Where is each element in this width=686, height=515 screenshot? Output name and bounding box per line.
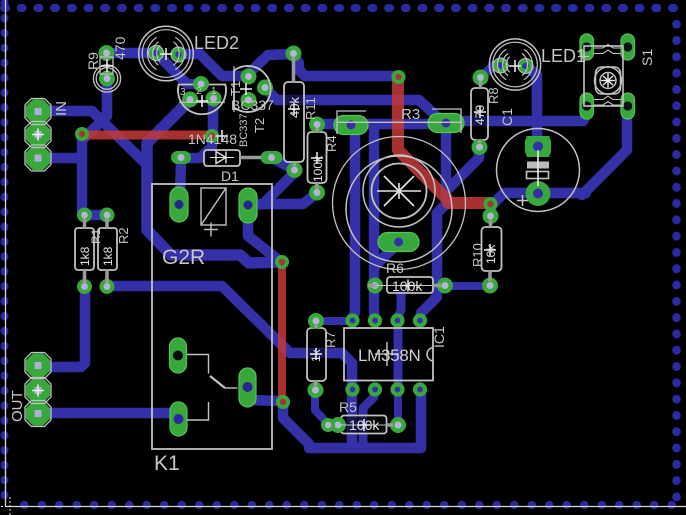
transistor T2 body [234,66,271,112]
resistor lead stubs [85,57,491,425]
svg-text:T2: T2 [252,118,267,133]
resistor R4 body [308,132,327,183]
relay K1 contact pad NO [170,338,187,373]
svg-text:100k: 100k [349,417,380,433]
svg-text:IN: IN [53,101,70,116]
wire T2 top pad to R11 top [246,54,292,76]
dashed frame top [4,4,686,12]
connector OUT pad 2 [26,378,50,402]
resistor R8 pads [472,70,489,156]
wire relay contact mid pad to via V5 [247,394,280,401]
via V2b [205,129,219,143]
svg-text:G2R: G2R [162,246,205,269]
wire pot wiper diag to riser [375,244,397,266]
wire D1 anode to relay coil pad 1 [180,158,181,203]
potentiometer pad right [428,114,464,133]
relay K1 coil pad 2 [239,188,257,223]
wire R4 top through pot pads [317,119,448,130]
resistor R11 body [284,82,304,162]
svg-text:D1: D1 [221,168,239,184]
resistor R2 body [98,228,117,270]
relay K1 contact pad NC [239,368,256,407]
svg-text:R5: R5 [339,399,357,415]
wire T2 right pad to pot right pad [265,88,444,123]
svg-text:LED2: LED2 [194,33,239,53]
svg-text:R2: R2 [116,227,131,244]
svg-text:R9: R9 [85,52,101,70]
svg-text:100k: 100k [311,155,325,182]
svg-text:470: 470 [112,36,128,60]
wire LED1 anode to C1 plus [526,66,537,146]
svg-text:1: 1 [211,86,217,97]
transistor T1 body [178,85,226,115]
via V6 [321,418,335,432]
diode D1 lead [240,156,261,160]
svg-text:10k: 10k [484,244,498,264]
via V7 [484,197,498,211]
transistor T2 pads [241,69,274,109]
svg-text:S1: S1 [639,49,655,66]
resistor R11 pads [286,46,303,179]
op-amp IC1 origin cross [375,342,399,366]
resistor R5 pads [330,417,406,433]
wire via V2b to D1 anode [184,137,212,158]
wire IN pin3 branch [38,153,80,164]
transistor T1 silk [178,85,226,115]
connector OUT pad 1 [26,353,50,377]
wire pot left pad down to IC pin1 [353,128,355,317]
wire R2 bottom to IC pin6 [107,286,352,446]
connector IN pad 2 [26,122,50,146]
relay K1 contact pad COM [170,402,187,436]
wire OUT pin3 to relay contact pad [40,408,176,419]
wire S1 pad to C1 minus bus [582,107,627,195]
svg-text:R4: R4 [324,135,339,152]
svg-text:OUT: OUT [9,390,26,422]
resistor R4 pads [309,117,325,201]
svg-text:R8: R8 [486,87,501,104]
wire IC pin3 to IC pin7 internal [394,321,403,389]
svg-text:BC337: BC337 [231,97,274,113]
svg-text:R1: R1 [89,228,103,244]
svg-text:R11: R11 [303,97,318,120]
capacitor C1 lead [537,150,539,186]
connector IN pad 1 [26,99,50,123]
resistor R8 body [471,88,488,140]
svg-text:100k: 100k [392,278,423,294]
board outline white line bottom [6,506,686,508]
capacitor C1 pad plus [525,136,551,157]
svg-text:470: 470 [473,105,487,125]
capacitor C1 pad minus [526,181,551,206]
connector IN silk octagons [25,99,51,172]
relay K1 coil pad 1 [170,187,188,222]
wire IC pin7 to R5 right [394,391,402,424]
dashed frame right [672,24,681,504]
LED LED1 silk [489,39,540,90]
resistor R6 pads [367,278,453,294]
diode D1 body [204,150,240,166]
wire top: via V2 to via V7 [398,78,488,203]
capacitor C1 plus mark [517,195,528,206]
wire T1 collector to via V2b [208,98,219,132]
connector OUT silk octagons [25,353,51,427]
origin marker cross [1,497,20,515]
wire LED2 anode to T2 top pad [178,54,246,76]
potentiometer body circles [333,137,466,270]
wire R8 bottom branch [449,147,479,188]
relay K1 contact symbol [187,355,238,421]
resistor R6 body [387,277,433,293]
wire R9.1 to LED2 anode [106,48,153,59]
wire via V5 to IC pin8 [283,392,421,448]
wire LED2 cathode to T1 base [156,53,199,84]
svg-text:T1: T1 [228,81,243,96]
wire IN pin1 branch [38,111,146,164]
wire R6 hidden to IC pin3 [398,293,401,317]
potentiometer pad left [334,116,368,135]
capacitor C1 circle [497,129,580,212]
svg-text:2: 2 [196,86,202,97]
resistor R9 silk [93,57,120,92]
wire R11 bottom to relay coil pad 2 [250,170,294,205]
potentiometer pad brackets [337,109,462,134]
switch S1 actuator lines [594,45,621,106]
svg-text:1N4148: 1N4148 [188,131,237,147]
potentiometer pad wiper [378,233,419,252]
wire IC pin6 to bottom bus [363,391,374,446]
potentiometer knob [363,155,435,227]
svg-text:R3: R3 [401,106,420,123]
svg-text:LM358N: LM358N [358,346,420,365]
diode D1 pads [171,151,283,164]
svg-text:BC337: BC337 [238,113,250,147]
svg-text:1k: 1k [309,348,323,362]
svg-text:40k: 40k [287,97,302,118]
resistor R9 pads [99,45,116,87]
wire relay coil pad2 to via V3 [248,207,280,261]
switch S1 outline [584,46,623,106]
dashed frame left [1,3,9,500]
svg-text:1k8: 1k8 [78,246,92,266]
pin numbers T1 [180,86,217,98]
svg-text:R6: R6 [386,260,404,276]
wire riser to IC pin2 [369,128,380,318]
wire pot-right net bus to S1 [448,107,587,121]
svg-text:K1: K1 [154,452,180,475]
svg-text:1k8: 1k8 [101,246,115,266]
connector OUT pad 3 [26,401,50,425]
wire R4 bottom to relay coil pad 2 [254,193,317,204]
resistor R1 body [75,228,94,270]
capacitor C1 plates [527,162,550,179]
resistor R1 pads [77,208,92,295]
wire C1 minus bus to R10 top [491,193,586,214]
via V1 [75,127,89,141]
svg-text:R10: R10 [470,243,485,267]
board outline white line left [5,0,7,507]
via V2 [392,70,406,84]
svg-text:3: 3 [180,87,186,98]
resistor R6 center line [375,285,433,287]
op-amp IC1 outline [344,328,433,381]
wire R11 top to via V2 [294,56,398,77]
wire R7 bottom to via V6 [315,390,327,423]
LED LED2 pads [149,46,187,63]
wire pot right pad to IC pin4 [420,126,446,318]
transistor T1 pads [182,76,222,108]
wire via V1 to R1/R2 tops [82,134,107,215]
resistor R10 body [482,227,502,271]
via V3 [275,255,289,269]
wire R6 right to R10 bottom [445,282,490,290]
resistor R7 body [307,328,326,381]
wire R7 top to IC pin1 [316,317,351,325]
potentiometer cross mark [377,176,421,206]
wire R9 bottom branch [82,78,107,140]
resistor R10 pads [482,208,499,294]
connector IN pad 3 [26,146,50,170]
wire D1 cathode to R11 bottom [272,158,293,169]
switch S1 pads [580,34,635,119]
switch S1 cross target [601,74,615,88]
line after LED1 [578,56,589,58]
svg-text:C1: C1 [499,108,515,126]
resistor R5 body [341,416,387,434]
svg-text:R7: R7 [323,331,338,348]
LED LED2 silk [139,26,194,81]
relay K1 coil symbol [201,188,226,237]
dashed frame bottom [24,501,686,509]
transistor T2 silk [234,66,271,112]
op-amp IC1 pads [348,316,426,395]
via V5 [276,395,290,409]
wire LED1 cathode to R8 top [481,66,500,77]
resistor R5 center line [341,424,386,426]
resistor R7 pads [308,313,325,398]
LED LED1 pads [493,58,533,74]
origin cross marks [32,48,521,431]
wire top: via V3 to via V5 [278,262,286,401]
wire T1 emitter to via V3 [147,100,280,263]
resistor R2 pads [100,208,115,295]
wire top: via V1 to via V2b [82,131,212,140]
relay K1 outline [152,184,272,449]
wire R1 bottom to OUT pin1 [40,287,85,367]
svg-text:IC1: IC1 [431,326,447,348]
diode D1 silk symbol [210,152,234,164]
